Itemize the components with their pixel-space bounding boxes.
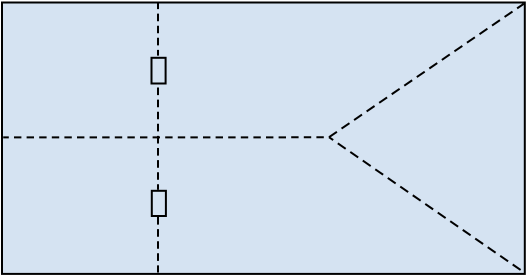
wire: lower diagonal dashed line from junction to bottom-right corner <box>329 137 524 272</box>
resistor R1 <box>152 58 166 84</box>
wire: horizontal dashed line from left border to junction <box>3 136 329 138</box>
resistor R2 <box>152 191 166 216</box>
wire: vertical dashed segment from top border to resistor R1 <box>157 4 159 56</box>
wire: vertical dashed segment from resistor R2 to bottom border <box>157 217 159 273</box>
wire: upper diagonal dashed line from junction to top-right corner <box>329 4 524 137</box>
wire: vertical dashed segment from resistor R1 to resistor R2 <box>157 85 159 190</box>
